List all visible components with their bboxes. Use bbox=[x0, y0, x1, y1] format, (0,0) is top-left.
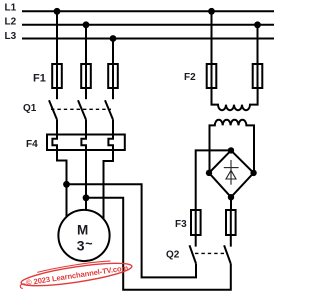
junction dot bridge left bbox=[206, 170, 212, 176]
svg-text:Q2: Q2 bbox=[166, 250, 180, 261]
svg-text:F4: F4 bbox=[26, 139, 38, 150]
wire Q1 pole2 to overload F4 with thermal element jog bbox=[81, 120, 86, 216]
contactor Q2 linkage dashed line bbox=[195, 252, 225, 254]
fuse F3 left bbox=[191, 210, 201, 235]
junction dot L1-phase1 bbox=[54, 8, 61, 15]
svg-text:L2: L2 bbox=[5, 17, 17, 28]
wire phase2 drop from L2 to fuse F1b bbox=[85, 25, 87, 99]
rectifier bridge diamond bbox=[209, 150, 254, 197]
wire F2 right drop from L2 bbox=[257, 25, 259, 88]
junction dot L2-phase2 bbox=[83, 21, 90, 28]
svg-text:F2: F2 bbox=[184, 72, 196, 83]
wire Q1 pole3 to overload F4 with thermal element jog bbox=[104, 120, 114, 220]
overload relay F4 box bbox=[47, 135, 125, 151]
junction dot bridge top bbox=[228, 147, 234, 153]
fuse F2 left bbox=[207, 64, 217, 88]
svg-text:M: M bbox=[77, 222, 88, 237]
transformer T1 primary winding bbox=[212, 88, 258, 110]
node L3 line bbox=[22, 38, 274, 40]
contactor Q1 linkage dashed line bbox=[51, 108, 111, 110]
svg-text:3: 3 bbox=[77, 237, 85, 253]
wire F3 left fuse-through to Q2 bbox=[195, 210, 197, 247]
svg-text:L1: L1 bbox=[5, 2, 17, 13]
transformer T1 secondary winding bbox=[210, 120, 255, 173]
watermark stamp bbox=[18, 257, 133, 291]
node L1 line bbox=[22, 10, 274, 12]
contactor Q1 pole1 blade bbox=[49, 100, 57, 119]
fuse F1 pole1 bbox=[52, 64, 62, 88]
wire control tap 2 from node B to Q2 right bbox=[86, 198, 231, 290]
contactor Q2 left blade bbox=[190, 245, 197, 263]
fuse F3 right bbox=[226, 210, 236, 235]
wire Q1 pole1 to overload F4 with thermal element jog bbox=[52, 120, 66, 218]
junction dot node B bbox=[83, 194, 90, 201]
svg-text:Q1: Q1 bbox=[23, 103, 37, 114]
diode D1 inside bridge bbox=[224, 160, 239, 185]
svg-text:F1: F1 bbox=[33, 73, 46, 85]
contactor Q1 pole2 blade bbox=[78, 100, 86, 119]
svg-text:L3: L3 bbox=[5, 31, 17, 42]
wire DC minus from bridge bottom to F3 right bbox=[230, 197, 232, 246]
wire F2 left drop from L1 bbox=[211, 11, 213, 88]
svg-text:~: ~ bbox=[85, 237, 92, 251]
junction dot node A bbox=[63, 181, 70, 188]
fuse F1 pole2 bbox=[81, 64, 91, 88]
junction dot L1-F2 bbox=[208, 8, 215, 15]
contactor Q1 pole3 blade bbox=[105, 100, 113, 119]
node L2 line bbox=[22, 24, 274, 26]
wire DC plus from bridge top to F3 left bbox=[196, 150, 231, 210]
wire phase1 drop from L1 to fuse F1a bbox=[56, 11, 58, 64]
wire phase1 fuse-through and to Q1 pole1 bbox=[56, 64, 58, 99]
fuse F1 pole3 bbox=[108, 64, 118, 88]
fuse F2 right bbox=[253, 64, 263, 88]
contactor Q2 right blade bbox=[224, 245, 231, 263]
junction dot bridge right bbox=[250, 170, 256, 176]
motor M1 circle bbox=[58, 210, 109, 261]
wire control tap 1 from node A to Q2 left bbox=[67, 184, 197, 277]
junction dot L3-phase3 bbox=[110, 35, 117, 42]
wire phase3 drop from L3 to fuse F1c bbox=[112, 39, 114, 100]
svg-text:F3: F3 bbox=[175, 219, 187, 230]
junction dot bridge bottom bbox=[228, 194, 234, 200]
junction dot L2-F2 bbox=[254, 21, 261, 28]
